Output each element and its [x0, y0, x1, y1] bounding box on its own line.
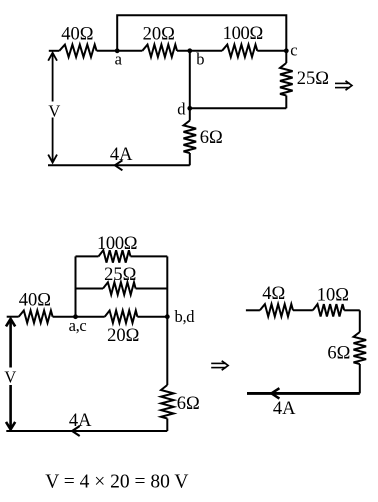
svg-text:25Ω: 25Ω — [104, 265, 136, 285]
svg-text:40Ω: 40Ω — [19, 290, 51, 310]
svg-text:100Ω: 100Ω — [223, 24, 263, 44]
svg-text:a: a — [115, 50, 123, 69]
svg-text:20Ω: 20Ω — [143, 24, 175, 44]
svg-text:100Ω: 100Ω — [97, 234, 137, 254]
svg-text:V: V — [48, 101, 60, 120]
svg-text:a,c: a,c — [69, 316, 87, 335]
svg-text:20Ω: 20Ω — [107, 326, 139, 346]
svg-text:V: V — [4, 367, 16, 386]
svg-text:10Ω: 10Ω — [317, 285, 349, 305]
svg-text:4A: 4A — [69, 411, 92, 431]
svg-text:V = 4 × 20 = 80 V: V = 4 × 20 = 80 V — [45, 472, 188, 493]
svg-text:d: d — [177, 100, 186, 119]
svg-text:4Ω: 4Ω — [262, 284, 285, 304]
svg-text:25Ω: 25Ω — [297, 69, 329, 89]
svg-text:4A: 4A — [110, 145, 133, 165]
svg-text:6Ω: 6Ω — [177, 394, 200, 414]
svg-text:6Ω: 6Ω — [200, 128, 223, 148]
svg-text:b: b — [196, 50, 204, 69]
svg-text:b,d: b,d — [175, 307, 196, 326]
svg-text:c: c — [290, 41, 297, 60]
svg-text:6Ω: 6Ω — [327, 343, 350, 363]
svg-text:4A: 4A — [273, 399, 296, 419]
svg-text:40Ω: 40Ω — [61, 24, 93, 44]
